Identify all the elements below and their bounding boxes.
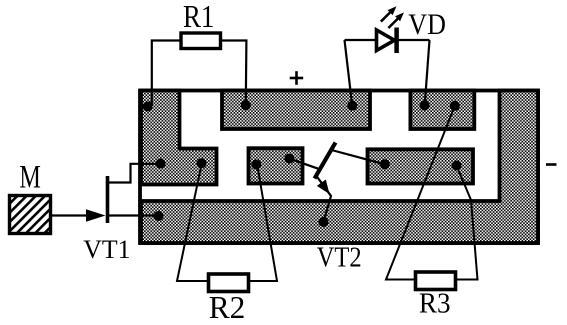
- transistor VT1 base bar: [106, 176, 110, 223]
- foil region: top-right strip: [410, 91, 474, 130]
- pad: R2 left (L-region foot right): [197, 158, 207, 168]
- wire: M to VT1 emitter: [51, 214, 89, 216]
- transistor VT2 bar: [315, 143, 336, 179]
- pad: R2 right (middle-center island): [251, 160, 261, 170]
- wire: VT1 to bottom strip pad: [109, 214, 158, 216]
- svg-text:R1: R1: [183, 0, 214, 34]
- wire: VD anode lead: [345, 40, 353, 104]
- LED VD emission arrow 1: [381, 6, 397, 21]
- resistor R2: [209, 274, 249, 292]
- svg-text:M: M: [19, 159, 40, 195]
- svg-text:R2: R2: [209, 290, 246, 325]
- foil region: top-middle strip: [222, 91, 370, 130]
- transistor VT2 emitter wire with arrow: [317, 176, 332, 222]
- resistor R3: [416, 272, 456, 290]
- LED VD triangle: [377, 30, 395, 51]
- foil region: middle-right island: [368, 149, 474, 183]
- pad: VT2 emitter (bottom strip): [318, 217, 328, 227]
- transistor VT2 collector wire: [332, 150, 386, 165]
- svg-text:VT1: VT1: [83, 234, 130, 263]
- wire: R1 right lead: [221, 41, 247, 105]
- transistor VT2 base wire: [289, 159, 318, 169]
- pad: R1 right (top-middle strip): [241, 100, 251, 110]
- LED VD emission arrow 2: [388, 12, 404, 28]
- wire: VD cathode lead: [425, 40, 430, 104]
- wire: VD horizontal link: [345, 39, 430, 41]
- pad: R3 left (top-right strip): [450, 101, 460, 111]
- motor M box: [10, 196, 51, 234]
- wire: R2 right lead: [249, 167, 278, 282]
- board outline: [140, 91, 538, 244]
- svg-text:VD: VD: [408, 8, 446, 41]
- − supply terminal: [546, 163, 557, 166]
- pad: VD cathode (top-right strip): [420, 101, 430, 111]
- + supply terminal: [290, 71, 304, 85]
- svg-text:R3: R3: [419, 288, 451, 320]
- pad: VT2 collector (middle-right island): [380, 159, 390, 169]
- wire: R3 right lead: [456, 166, 478, 280]
- resistor R1: [181, 33, 221, 49]
- pad: VT1 emitter (bottom strip): [154, 211, 164, 221]
- LED VD cathode bar: [394, 28, 399, 54]
- foil region: top-left L (VT1 collector/base bus): [141, 91, 217, 185]
- transistor VT1 emitter arrow: [86, 209, 106, 221]
- svg-text:VT2: VT2: [317, 241, 362, 273]
- pad: R3 right (middle-right island): [452, 161, 462, 171]
- pad: VT2 base (middle-center island): [284, 154, 294, 164]
- wire: R3 left lead: [386, 106, 455, 280]
- pad: VD anode (top-middle strip): [347, 101, 357, 111]
- pad: R1 left (L-region top): [143, 102, 153, 112]
- pad: VT1 collector (L-region foot): [156, 159, 166, 169]
- foil region: minus rail (right column + bottom strip): [141, 91, 538, 244]
- foil region: middle-center island: [249, 148, 303, 183]
- wire: VT1 collector step to L-region pad: [109, 164, 161, 183]
- wire: R2 left lead: [177, 163, 209, 281]
- wire: R1 left lead: [152, 41, 181, 107]
